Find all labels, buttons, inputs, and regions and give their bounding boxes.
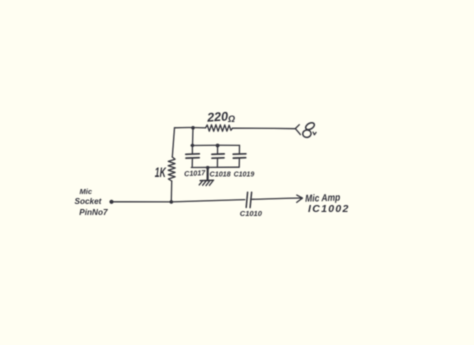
svg-text:PinNo7: PinNo7 <box>79 208 108 217</box>
svg-text:Ω: Ω <box>227 114 235 124</box>
svg-text:Socket: Socket <box>75 197 102 206</box>
svg-text:C1018: C1018 <box>210 169 231 178</box>
svg-text:C1019: C1019 <box>234 172 255 179</box>
svg-text:Mic: Mic <box>80 187 93 196</box>
svg-text:220: 220 <box>206 109 229 124</box>
svg-text:IC1002: IC1002 <box>308 203 350 215</box>
svg-text:C1010: C1010 <box>240 209 263 218</box>
svg-text:C1017: C1017 <box>184 168 207 178</box>
svg-text:1K: 1K <box>155 164 167 180</box>
